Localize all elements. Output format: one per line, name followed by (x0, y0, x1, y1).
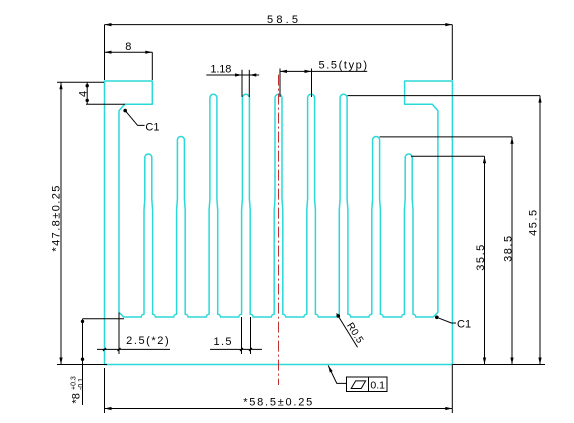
svg-text:*8: *8 (71, 393, 83, 403)
centerline (278, 75, 280, 385)
svg-text:*47.8±0.25: *47.8±0.25 (51, 186, 63, 252)
dimension 45.5 tall fin height (348, 95, 541, 97)
dimension 1.5 fin root width (210, 348, 262, 350)
svg-text:*58.5±0.25: *58.5±0.25 (243, 396, 312, 408)
svg-text:0.1: 0.1 (370, 379, 385, 391)
dimension 58.5 overall width bottom (105, 408, 453, 410)
dimension 4 tab height (86, 82, 88, 104)
svg-text:8: 8 (125, 41, 131, 53)
dimension 35.5 fin height (411, 155, 485, 157)
svg-text:-0.1: -0.1 (78, 378, 85, 390)
dimension 8 tab width (105, 51, 153, 53)
svg-text:1.5: 1.5 (214, 336, 232, 348)
dimension 8 base thickness with tolerance (82, 319, 84, 405)
svg-text:R0.5: R0.5 (344, 321, 365, 346)
svg-text:4: 4 (78, 91, 90, 97)
dimension 2.5 (2 places) edge fin width (97, 348, 170, 350)
dimension 1.18 fin tip width (206, 74, 259, 76)
label C1 chamfer right groove (435, 316, 439, 320)
svg-text:38.5: 38.5 (502, 236, 514, 262)
svg-text:+0.3: +0.3 (71, 376, 78, 390)
svg-text:2.5(*2): 2.5(*2) (126, 335, 169, 347)
dimension 58.5 overall width top (105, 24, 453, 26)
heatsink profile outline (105, 81, 453, 365)
svg-text:45.5: 45.5 (527, 210, 539, 236)
svg-text:C1: C1 (145, 121, 159, 133)
label R0.5 root radius (337, 314, 341, 318)
dimension 47.8 overall height left (60, 82, 62, 364)
dimension 5.5 typ fin pitch (280, 70, 367, 72)
svg-text:C1: C1 (457, 319, 471, 331)
label C1 chamfer left tab (123, 109, 127, 113)
svg-text:35.5: 35.5 (475, 245, 487, 271)
flatness tolerance frame 0.1 (328, 366, 333, 373)
svg-text:5.5(typ): 5.5(typ) (319, 60, 368, 72)
dimension 38.5 fin height (380, 136, 513, 138)
svg-text:1.18: 1.18 (210, 64, 231, 76)
